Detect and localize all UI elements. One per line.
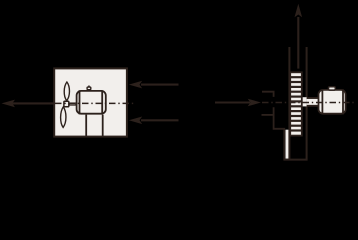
motor M2 end seams [321,89,323,114]
motor M2 terminal cap [329,87,336,90]
motor pedestal [85,115,87,136]
inlet arrow bottom right [129,117,179,125]
motor M1 body [77,91,106,114]
motor M1 terminal cap [87,87,91,90]
casing bottom [283,159,307,161]
duct right wall lower [306,106,308,160]
centerline left figure [55,102,134,104]
motor M2 body [319,90,346,114]
casing white channel [286,130,289,159]
propeller hub [64,101,69,107]
outlet arrow (left) [2,100,56,108]
propeller blade top [64,82,69,101]
duct right wall upper [306,47,308,98]
impeller [290,72,302,135]
inlet collar top [262,92,274,97]
duct left wall [288,47,290,160]
motor M1 end seams [79,90,81,114]
impeller hub white notch [302,97,306,106]
fan shaft to motor [307,99,320,106]
centrifugal fan intake arrow [215,99,261,107]
inlet arrow top right [129,81,179,89]
motor shaft left [69,103,76,105]
discharge arrow up [295,4,303,69]
axial fan duct box [54,68,127,136]
scroll casing step [274,107,285,159]
propeller blade bottom [61,107,66,128]
centerline right figure [262,102,356,104]
inlet collar bottom flange [262,114,275,116]
